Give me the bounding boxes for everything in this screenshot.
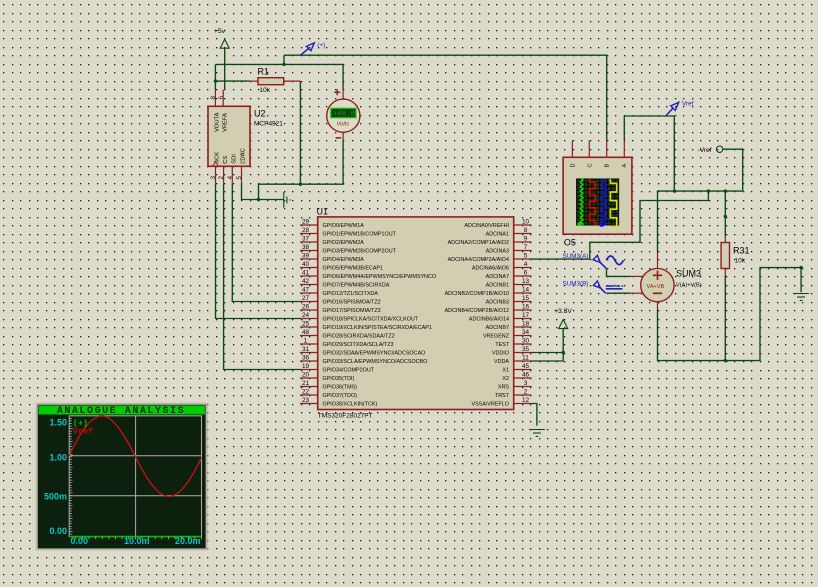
svg-text:5: 5 <box>236 176 243 180</box>
svg-text:47: 47 <box>302 286 310 293</box>
svg-text:GPIO3/EPWM2B/COMP2OUT: GPIO3/EPWM2B/COMP2OUT <box>323 249 397 255</box>
svg-text:7: 7 <box>524 244 528 251</box>
svg-text:23: 23 <box>302 397 310 404</box>
svg-text:X2: X2 <box>502 376 509 382</box>
svg-text:4: 4 <box>227 176 234 180</box>
svg-text:6: 6 <box>524 269 528 276</box>
svg-text:GPIO34/COMP2OUT: GPIO34/COMP2OUT <box>323 368 375 374</box>
svg-text:R1: R1 <box>258 67 270 77</box>
svg-text:SUM3(A): SUM3(A) <box>563 253 589 260</box>
svg-text:14: 14 <box>522 286 530 293</box>
svg-text:+3.3V: +3.3V <box>554 308 572 315</box>
svg-text:TEST: TEST <box>495 342 509 348</box>
svg-text:GPIO37(TDO): GPIO37(TDO) <box>323 393 358 399</box>
svg-text:Volts: Volts <box>337 121 350 127</box>
svg-text:GPIO16/SPISIMOA/TZ2: GPIO16/SPISIMOA/TZ2 <box>323 300 381 306</box>
svg-text:C: C <box>587 163 593 167</box>
svg-text:8: 8 <box>524 227 528 234</box>
svg-text:4: 4 <box>524 261 528 268</box>
svg-text:ADCINA7: ADCINA7 <box>486 274 509 280</box>
svg-text:ADCINB6/AIO14: ADCINB6/AIO14 <box>469 317 509 323</box>
svg-text:D: D <box>570 163 576 167</box>
svg-text:46: 46 <box>522 371 530 378</box>
svg-text:TMS320F28027PT: TMS320F28027PT <box>318 413 373 420</box>
svg-text:XRS: XRS <box>498 385 509 391</box>
svg-text:GPIO7/EPWM4B/SCIRXDA: GPIO7/EPWM4B/SCIRXDA <box>323 283 390 289</box>
svg-text:VSSA/VREFLO: VSSA/VREFLO <box>472 402 509 408</box>
svg-text:16: 16 <box>522 303 530 310</box>
svg-text:34: 34 <box>522 329 530 336</box>
svg-text:-Vref: -Vref <box>698 147 712 154</box>
svg-text:LDAC: LDAC <box>241 148 247 163</box>
svg-text:18: 18 <box>522 320 530 327</box>
svg-text:SDI: SDI <box>232 154 238 164</box>
svg-text:20.0m: 20.0m <box>175 536 201 546</box>
svg-text:ADCINB3: ADCINB3 <box>486 300 509 306</box>
svg-text:28: 28 <box>302 227 310 234</box>
svg-text:+88.8: +88.8 <box>334 111 355 119</box>
svg-text:25: 25 <box>302 320 310 327</box>
svg-text:29: 29 <box>302 218 310 225</box>
svg-text:GPIO12/TZ1/SCITXDA: GPIO12/TZ1/SCITXDA <box>323 291 379 297</box>
svg-text:45: 45 <box>522 363 530 370</box>
svg-text:9: 9 <box>524 235 528 242</box>
svg-text:ADCINA1: ADCINA1 <box>486 232 509 238</box>
svg-text:GPIO5/EPWM3B/ECAP1: GPIO5/EPWM3B/ECAP1 <box>323 266 384 272</box>
svg-text:U2: U2 <box>254 109 266 119</box>
svg-text:GPIO38/XCLKIN(TCK): GPIO38/XCLKIN(TCK) <box>323 402 378 408</box>
svg-text:0.00: 0.00 <box>71 536 89 546</box>
svg-text:6: 6 <box>218 96 225 100</box>
svg-text:20: 20 <box>302 371 310 378</box>
svg-text:VREGENZ: VREGENZ <box>483 334 510 340</box>
svg-text:Vref: Vref <box>73 427 93 437</box>
svg-text:ADCINB4/COMP2B/AIO12: ADCINB4/COMP2B/AIO12 <box>445 308 509 314</box>
svg-text:Vref: Vref <box>682 101 694 108</box>
svg-text:SUM3: SUM3 <box>676 269 701 279</box>
svg-text:U1: U1 <box>317 207 329 217</box>
svg-text:31: 31 <box>302 346 310 353</box>
svg-text:26: 26 <box>302 303 310 310</box>
svg-text:1.00: 1.00 <box>49 453 67 463</box>
svg-text:VDDIO: VDDIO <box>492 351 509 357</box>
svg-text:5: 5 <box>524 252 528 259</box>
svg-text:O5: O5 <box>564 238 576 248</box>
svg-text:2: 2 <box>218 176 225 180</box>
svg-text:GPIO32/SDAA/EPWMSYNCI/ADCSOCAO: GPIO32/SDAA/EPWMSYNCI/ADCSOCAO <box>323 351 426 357</box>
svg-text:MCP4921: MCP4921 <box>254 121 283 128</box>
svg-text:GPIO1/EPWM1B/COMP1OUT: GPIO1/EPWM1B/COMP1OUT <box>323 232 397 238</box>
svg-text:1: 1 <box>304 337 308 344</box>
svg-text:500m: 500m <box>44 491 67 501</box>
svg-text:30: 30 <box>522 337 530 344</box>
svg-text:GPIO28/SCIRXDA/SDAA/TZ2: GPIO28/SCIRXDA/SDAA/TZ2 <box>323 334 395 340</box>
svg-text:GPIO29/SCITXDA/SCLA/TZ3: GPIO29/SCITXDA/SCLA/TZ3 <box>323 342 394 348</box>
svg-text:8: 8 <box>210 96 217 100</box>
svg-text:ADCINB7: ADCINB7 <box>486 325 509 331</box>
svg-text:ADCINA3: ADCINA3 <box>486 249 509 255</box>
svg-text:V(A)+V(B): V(A)+V(B) <box>676 283 702 289</box>
svg-text:27: 27 <box>302 295 310 302</box>
svg-text:17: 17 <box>522 312 530 319</box>
svg-text:GPIO33/SCLA/EPWMSYNCO/ADCSOCBO: GPIO33/SCLA/EPWMSYNCO/ADCSOCBO <box>323 359 428 365</box>
svg-text:CS: CS <box>223 156 229 164</box>
svg-text:19: 19 <box>302 363 310 370</box>
svg-text:ADCINB2/COMP1B/AIO10: ADCINB2/COMP1B/AIO10 <box>445 291 509 297</box>
svg-text:35: 35 <box>522 346 530 353</box>
svg-text:10k: 10k <box>260 87 271 94</box>
svg-text:GPIO2/EPWM2A: GPIO2/EPWM2A <box>323 240 365 246</box>
svg-text:37: 37 <box>302 235 310 242</box>
svg-text:SUM3(B): SUM3(B) <box>563 281 589 288</box>
svg-text:40: 40 <box>302 261 310 268</box>
svg-text:13: 13 <box>522 278 530 285</box>
svg-text:TRST: TRST <box>495 393 510 399</box>
svg-text:3: 3 <box>210 176 217 180</box>
svg-text:+5v: +5v <box>214 28 226 35</box>
svg-text:15: 15 <box>522 295 530 302</box>
svg-text:GPIO18/SPICLKA/SCITXDA/XCLKOUT: GPIO18/SPICLKA/SCITXDA/XCLKOUT <box>323 317 419 323</box>
svg-text:10.0m: 10.0m <box>124 536 150 546</box>
svg-text:R31: R31 <box>733 246 750 256</box>
svg-text:VDDA: VDDA <box>494 359 509 365</box>
svg-text:41: 41 <box>302 269 310 276</box>
svg-text:12: 12 <box>522 397 530 404</box>
svg-text:42: 42 <box>302 278 310 285</box>
svg-text:10: 10 <box>522 218 530 225</box>
svg-text:ADCINA2/COMP1A/AIO2: ADCINA2/COMP1A/AIO2 <box>448 240 509 246</box>
svg-text:VREFA: VREFA <box>223 113 229 132</box>
svg-text:GPIO4/EPWM3A: GPIO4/EPWM3A <box>323 257 365 263</box>
svg-text:2: 2 <box>524 388 528 395</box>
svg-text:36: 36 <box>302 354 310 361</box>
svg-text:39: 39 <box>302 252 310 259</box>
svg-text:X1: X1 <box>502 368 509 374</box>
svg-text:GPIO17/SPISOMIA/TZ3: GPIO17/SPISOMIA/TZ3 <box>323 308 381 314</box>
svg-text:10k: 10k <box>735 258 746 265</box>
svg-text:1.50: 1.50 <box>49 417 67 427</box>
svg-text:GPIO6/EPWM4A/EPWMSYNCI/EPWMSYN: GPIO6/EPWM4A/EPWMSYNCI/EPWMSYNCO <box>323 274 437 280</box>
svg-text:21: 21 <box>302 380 310 387</box>
svg-text:11: 11 <box>522 354 529 361</box>
svg-text:3: 3 <box>524 380 528 387</box>
svg-text:ADCINA6/AIO6: ADCINA6/AIO6 <box>472 266 509 272</box>
svg-text:(+): (+) <box>317 42 325 49</box>
svg-text:GPIO19/XCLKIN/SPISTEA/SCIRXDA/: GPIO19/XCLKIN/SPISTEA/SCIRXDA/ECAP1 <box>323 325 432 331</box>
svg-text:0.00: 0.00 <box>49 526 67 536</box>
svg-text:B: B <box>605 164 611 168</box>
svg-text:VA+VB: VA+VB <box>647 284 665 290</box>
svg-text:GPIO0/EPWM1A: GPIO0/EPWM1A <box>323 223 365 229</box>
svg-text:GPIO36(TMS): GPIO36(TMS) <box>323 385 358 391</box>
svg-text:22: 22 <box>302 388 310 395</box>
svg-text:24: 24 <box>302 312 310 319</box>
svg-text:ADCINA0/VREFHI: ADCINA0/VREFHI <box>464 223 509 229</box>
svg-text:ADCINA4/COMP2A/AIO4: ADCINA4/COMP2A/AIO4 <box>448 257 509 263</box>
svg-text:38: 38 <box>302 244 310 251</box>
svg-text:VOUTA: VOUTA <box>215 112 221 132</box>
svg-text:A: A <box>622 164 628 168</box>
svg-text:ADCINB1: ADCINB1 <box>486 283 509 289</box>
svg-text:48: 48 <box>302 329 310 336</box>
svg-text:GPIO35(TDI): GPIO35(TDI) <box>323 376 355 382</box>
